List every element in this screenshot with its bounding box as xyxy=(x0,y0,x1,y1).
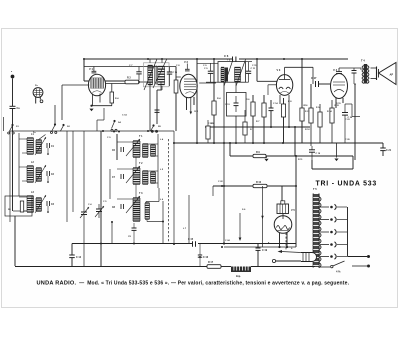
padder box xyxy=(235,82,237,92)
wire xyxy=(310,84,312,108)
resistor R13 xyxy=(309,108,313,123)
wire plate V3 top xyxy=(284,67,286,74)
oscillator transformer T2 frame xyxy=(218,62,246,83)
mechanical link dashed xyxy=(168,139,170,244)
coil T1 primary xyxy=(148,66,153,85)
wire xyxy=(148,170,158,172)
IF transformer T1 can xyxy=(144,63,170,87)
capacitor C5 xyxy=(132,228,137,230)
tube V4 xyxy=(331,74,348,99)
wire xyxy=(197,62,218,64)
switch arm xyxy=(38,135,46,141)
wire xyxy=(294,127,296,156)
svg-text:C 11: C 11 xyxy=(251,68,256,70)
wire xyxy=(286,233,288,248)
trimmer arrow T1 primary xyxy=(144,59,157,90)
tube V1 xyxy=(88,74,105,96)
switch S1 contacts xyxy=(11,124,13,126)
wire xyxy=(339,67,361,69)
wire xyxy=(22,152,27,154)
wire xyxy=(353,79,355,84)
wire xyxy=(281,186,283,205)
junction xyxy=(278,246,280,248)
wire cathode V4 xyxy=(335,98,337,108)
wire xyxy=(212,186,214,196)
junction dots xyxy=(147,130,149,132)
trimmer arrow xyxy=(35,137,46,155)
wire B+ top bus xyxy=(84,58,232,60)
wire xyxy=(156,155,159,157)
wire xyxy=(279,95,281,104)
wire xyxy=(19,166,27,168)
wire xyxy=(354,84,356,160)
wire xyxy=(14,216,16,266)
filter choke Imp xyxy=(231,267,251,273)
loudspeaker AP xyxy=(376,67,378,81)
antenna coil L2 primary xyxy=(27,166,34,182)
resistor R10 xyxy=(253,184,267,187)
trimmer capacitor C2 xyxy=(47,171,50,176)
wire xyxy=(117,198,133,200)
resistor R18 xyxy=(206,126,210,139)
wire xyxy=(173,131,175,244)
svg-text:R 14: R 14 xyxy=(327,110,332,113)
wire volume drop xyxy=(61,85,63,120)
wire xyxy=(72,131,74,212)
antenna terminal xyxy=(11,75,15,79)
trimmer arrow xyxy=(126,166,140,183)
switch S4 contacts xyxy=(113,120,115,122)
node xyxy=(113,131,115,133)
antenna coil L1 secondary xyxy=(36,140,42,153)
wire xyxy=(149,83,151,132)
antenna coil L2 secondary xyxy=(36,168,42,181)
tube V2 xyxy=(180,74,197,98)
antenna coil L1 primary xyxy=(27,138,34,154)
power transformer T5 core xyxy=(312,194,314,268)
wire plate V2 xyxy=(199,82,216,84)
oscillator transformer T 3 primary xyxy=(133,198,140,221)
wire xyxy=(254,244,256,247)
padder capacitor C4 xyxy=(83,208,85,212)
wire xyxy=(83,59,85,67)
wire arrow drop xyxy=(262,186,264,247)
wire AF bus xyxy=(72,243,192,245)
wire xyxy=(246,81,249,83)
trimmer arrow T2 primary xyxy=(224,60,233,87)
ground xyxy=(266,156,268,158)
wire xyxy=(235,116,237,143)
variable capacitor C7 xyxy=(121,174,124,179)
svg-text:12 V: 12 V xyxy=(194,111,199,113)
resistor R6 xyxy=(251,102,255,116)
wire AVC arrow xyxy=(190,98,192,113)
wire xyxy=(116,134,118,160)
wire xyxy=(19,196,27,198)
wire xyxy=(223,82,225,243)
resistor R14 xyxy=(318,112,322,127)
capacitor C10 xyxy=(155,110,160,112)
wire xyxy=(206,81,218,83)
capacitor C21 xyxy=(380,148,386,151)
svg-text:C 15: C 15 xyxy=(188,238,194,241)
resistor R9 xyxy=(253,154,266,157)
trimmer arrow xyxy=(35,165,46,183)
oscillator transformer T 2 secondary xyxy=(143,171,149,184)
capacitor C17 xyxy=(316,81,319,87)
wire grid bus 2 xyxy=(84,66,176,68)
trimmer capacitor C1 xyxy=(47,143,50,148)
wire bus left lower xyxy=(10,130,174,132)
wire box xyxy=(311,160,313,169)
wire xyxy=(22,210,27,212)
wire xyxy=(145,202,147,204)
resistor R16 xyxy=(300,108,304,121)
tube V3 xyxy=(276,75,292,96)
wire xyxy=(161,59,163,63)
wire xyxy=(117,141,133,143)
ground xyxy=(89,109,93,112)
wire xyxy=(188,195,190,244)
wire xyxy=(22,180,27,182)
trimmer arrow xyxy=(35,195,46,213)
wire xyxy=(157,134,159,188)
capacitor C12 xyxy=(69,255,75,258)
wire xyxy=(106,83,125,85)
grid cap V1 xyxy=(92,70,97,72)
svg-text:C 13: C 13 xyxy=(225,104,230,106)
svg-text:C 10: C 10 xyxy=(173,72,178,74)
wire bus 3 xyxy=(213,185,253,187)
svg-text:C 24: C 24 xyxy=(225,239,230,242)
trimmer capacitor C3 xyxy=(47,201,50,206)
wire xyxy=(47,176,49,181)
svg-text:4 %: 4 % xyxy=(336,270,341,274)
trimmer arrow T2 secondary xyxy=(236,60,246,87)
svg-text:V 3: V 3 xyxy=(277,69,281,72)
output transformer T4 xyxy=(364,64,367,84)
wire xyxy=(83,131,85,208)
coil T1 secondary xyxy=(158,67,165,85)
wire xyxy=(295,260,301,262)
wire xyxy=(351,104,353,117)
core T1 xyxy=(154,66,156,85)
wire xyxy=(3,117,5,131)
wire xyxy=(288,95,290,127)
wire xyxy=(47,206,49,211)
capacitor C15 xyxy=(193,241,196,247)
wire xyxy=(246,61,253,63)
wire diode leads xyxy=(257,80,277,82)
resistor R3 xyxy=(174,80,178,93)
wire xyxy=(135,157,137,168)
power transformer secondary winding xyxy=(313,194,318,267)
wire heater bus xyxy=(224,246,296,248)
wire speaker leads xyxy=(371,67,377,69)
wire xyxy=(279,233,281,247)
switch S3 xyxy=(320,266,330,268)
svg-text:C 14: C 14 xyxy=(273,102,278,105)
capacitor C10 xyxy=(169,67,171,72)
ground xyxy=(336,144,338,158)
svg-text:C 21: C 21 xyxy=(386,149,392,152)
svg-text:C 19: C 19 xyxy=(316,153,321,155)
oscillator transformer T 2 primary xyxy=(133,168,140,184)
svg-text:V 2: V 2 xyxy=(184,60,188,64)
wire xyxy=(266,155,353,157)
coil T2 secondary xyxy=(235,68,241,82)
antenna coil L3 primary xyxy=(27,196,34,212)
capacitor C19 xyxy=(256,248,261,250)
wire xyxy=(149,59,151,63)
capacitor C6 xyxy=(233,57,236,62)
wire xyxy=(84,80,125,82)
resistor R4 xyxy=(110,92,114,103)
wire xyxy=(9,131,11,222)
svg-text:R 11: R 11 xyxy=(298,159,303,161)
wire xyxy=(319,83,330,85)
wire xyxy=(100,131,102,267)
svg-text:AP: AP xyxy=(390,73,394,77)
primary loop xyxy=(301,253,317,262)
capacitor C9 xyxy=(210,63,212,71)
oscillator transformer T 1 primary xyxy=(133,141,140,157)
wire xyxy=(47,148,49,153)
capacitor C16 xyxy=(199,256,201,258)
wire xyxy=(348,256,368,258)
svg-text:UNDA RADIO. — Mod. « Tri Unda: UNDA RADIO. — Mod. « Tri Unda 533-535 e … xyxy=(37,281,350,287)
wire xyxy=(109,169,111,199)
wire primary 2 xyxy=(281,252,301,253)
svg-text:R 2: R 2 xyxy=(127,77,131,80)
wire bottom frame xyxy=(15,266,103,268)
svg-text:Imp.: Imp. xyxy=(236,275,241,278)
wire xyxy=(135,184,137,198)
wire xyxy=(19,138,27,140)
wire xyxy=(62,84,89,86)
wire grid cap V4 xyxy=(336,73,342,75)
svg-text:V 5: V 5 xyxy=(291,209,295,212)
transformer taps xyxy=(320,206,329,208)
svg-text:C 16: C 16 xyxy=(203,256,209,259)
padder capacitor C5a xyxy=(98,204,100,209)
switch S5 contacts xyxy=(152,124,154,126)
wire bus 2 xyxy=(230,155,253,157)
wire xyxy=(83,219,85,267)
wire xyxy=(295,156,297,186)
wire xyxy=(229,143,231,156)
wire xyxy=(13,210,27,212)
resistor R15 xyxy=(330,108,334,123)
variable capacitor C6 xyxy=(121,147,124,152)
wire xyxy=(148,143,158,145)
wire xyxy=(39,97,41,100)
terminal primary xyxy=(272,259,275,262)
svg-text:V 1: V 1 xyxy=(89,67,93,71)
wire xyxy=(96,120,98,131)
svg-text:C 12: C 12 xyxy=(76,256,82,259)
svg-text:R 17: R 17 xyxy=(208,261,214,264)
wire xyxy=(295,186,297,247)
trimmer arrow xyxy=(126,196,140,213)
wire antenna down xyxy=(12,109,14,212)
svg-text:T 5: T 5 xyxy=(313,187,317,191)
wire xyxy=(213,59,215,101)
wire xyxy=(35,97,37,104)
wire xyxy=(267,185,296,187)
svg-text:R 15: R 15 xyxy=(336,103,341,105)
resistor R8 xyxy=(281,104,285,117)
wire xyxy=(83,59,85,81)
wire xyxy=(139,81,148,83)
wire tap collector xyxy=(347,207,349,257)
wire xyxy=(146,219,148,222)
antenna coil box xyxy=(5,196,32,216)
capacitor C14 xyxy=(269,108,274,111)
wire xyxy=(156,182,159,184)
capacitor C7 xyxy=(138,67,140,72)
switch S2 contacts xyxy=(54,105,56,124)
capacitor C18 xyxy=(353,68,355,70)
variable capacitor C8 xyxy=(121,204,124,209)
coil tickler xyxy=(151,172,156,183)
wire xyxy=(18,133,20,196)
svg-text:C 22: C 22 xyxy=(218,181,223,183)
wire xyxy=(196,59,198,143)
svg-text:R 9: R 9 xyxy=(256,151,260,154)
wire xyxy=(239,213,241,238)
oscillator transformer T 1 secondary xyxy=(143,144,149,157)
coil tickler T3 xyxy=(145,203,150,219)
rectifier tube V5 xyxy=(277,204,289,214)
wire xyxy=(161,86,163,90)
wire xyxy=(111,222,113,244)
wire xyxy=(147,224,149,244)
svg-text:C 20: C 20 xyxy=(345,139,350,141)
wire xyxy=(310,123,312,146)
junction xyxy=(223,242,225,244)
coil T2 primary xyxy=(221,68,224,82)
wire xyxy=(172,59,174,143)
svg-text:C 23: C 23 xyxy=(345,119,350,121)
svg-text:C 17: C 17 xyxy=(311,76,317,80)
pickup jack Pu xyxy=(33,88,43,98)
resistor R7 xyxy=(262,103,266,117)
resistor R7b xyxy=(243,122,247,135)
wire xyxy=(66,131,68,222)
trimmer arrow T1 secondary xyxy=(153,59,167,89)
wire xyxy=(160,83,162,91)
resistor R1 xyxy=(20,201,23,212)
svg-text:C 19: C 19 xyxy=(262,249,268,252)
grid cap V2 xyxy=(185,68,190,70)
wire xyxy=(345,103,352,105)
coil tickler xyxy=(151,145,156,156)
wire xyxy=(301,121,303,144)
antenna coil L3 secondary xyxy=(36,198,42,211)
svg-text:C 12: C 12 xyxy=(208,123,213,125)
svg-text:C 11: C 11 xyxy=(252,65,257,67)
trimmer arrow xyxy=(126,139,140,156)
wire bus detector xyxy=(205,126,310,128)
svg-text:R 10: R 10 xyxy=(256,181,262,184)
svg-text:C 14: C 14 xyxy=(122,114,127,117)
wire xyxy=(301,59,303,126)
svg-text:R 12: R 12 xyxy=(305,129,310,131)
capacitor C11 xyxy=(248,62,250,71)
resistor R2 xyxy=(125,80,139,84)
svg-text:TRI - UNDA 533: TRI - UNDA 533 xyxy=(316,181,377,188)
capacitor Ca xyxy=(10,106,16,108)
wire xyxy=(117,168,133,170)
wire bus AVC xyxy=(173,142,383,144)
wire xyxy=(213,115,215,143)
resistor R17 xyxy=(207,265,221,269)
resistor R5 xyxy=(212,101,216,115)
capacitor C13 xyxy=(234,103,239,106)
wire xyxy=(92,105,113,107)
wire xyxy=(162,201,164,244)
capacitor C19b xyxy=(311,146,313,150)
svg-text:C 6: C 6 xyxy=(224,54,229,58)
wire cathode V2 xyxy=(186,97,188,110)
wire xyxy=(176,76,181,78)
dashed cord xyxy=(285,233,287,251)
wire xyxy=(360,68,362,70)
svg-text:T 4: T 4 xyxy=(361,59,365,63)
wire xyxy=(256,59,258,81)
wire cathode legs V1 xyxy=(92,94,94,106)
capacitor C20 xyxy=(344,104,346,112)
